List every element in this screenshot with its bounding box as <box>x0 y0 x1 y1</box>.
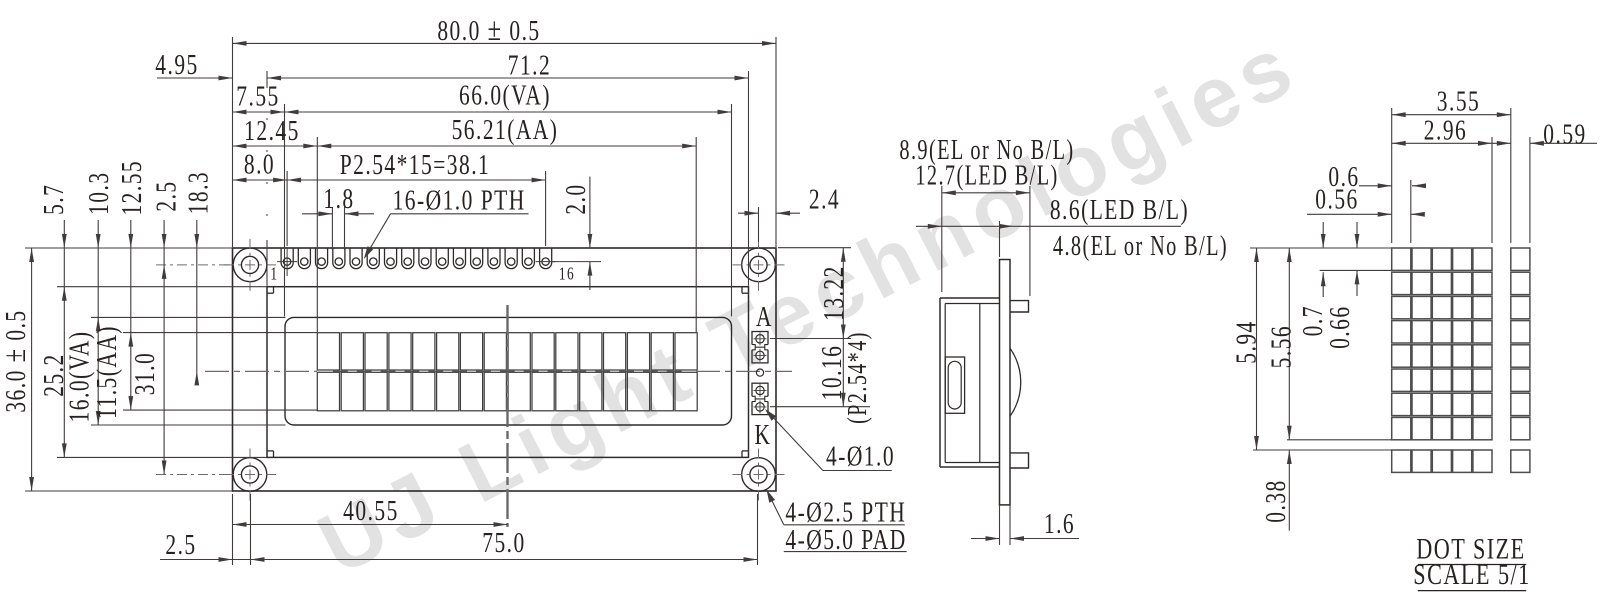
ext line bezel bottom left <box>57 456 267 458</box>
dim 56.21(AA) <box>317 145 696 147</box>
dot matrix spacing row <box>1392 450 1411 472</box>
pin16 crosshair <box>536 261 556 263</box>
pin pads 16x with holes <box>281 248 293 269</box>
mounting holes 4x <box>233 248 267 282</box>
svg-text:8.6(LED B/L): 8.6(LED B/L) <box>1050 193 1189 226</box>
dim 0.59 <box>1492 142 1511 144</box>
svg-text:A: A <box>756 300 773 333</box>
ext line hole right bottom <box>757 494 759 565</box>
svg-text:10.3: 10.3 <box>82 171 115 214</box>
dim 12.45 <box>233 145 318 147</box>
ext line pad A first <box>770 338 851 340</box>
svg-text:18.3: 18.3 <box>181 171 214 214</box>
ext line board top right <box>778 247 851 249</box>
dim 40.55 <box>233 524 508 526</box>
backlight pads A <box>752 332 768 363</box>
svg-text:75.0: 75.0 <box>482 526 525 559</box>
ext line row1 bottom left <box>1320 269 1392 271</box>
svg-text:16: 16 <box>559 265 575 284</box>
side view bezel outline <box>939 298 941 467</box>
dim 0.38 <box>1288 450 1290 531</box>
ext line pin16 <box>545 171 547 246</box>
ext line hole top centerline left <box>156 264 233 266</box>
svg-text:71.2: 71.2 <box>508 48 551 81</box>
dim 2.5 and 31.0 <box>163 220 165 475</box>
vertical centerline <box>506 305 508 527</box>
pad crosshair ticks <box>754 338 767 340</box>
svg-text:1.6: 1.6 <box>1044 507 1075 540</box>
ext line pad K last <box>770 406 870 408</box>
dim 5.94 <box>1256 248 1258 450</box>
svg-text:80.0 ± 0.5: 80.0 ± 0.5 <box>437 12 540 48</box>
svg-text:2.0: 2.0 <box>559 183 592 214</box>
dot matrix spacing column <box>1511 248 1530 270</box>
svg-text:1: 1 <box>270 265 278 284</box>
ext line col1 right <box>1410 180 1412 243</box>
svg-text:1.8: 1.8 <box>323 182 354 215</box>
dim 18.3 <box>196 220 198 385</box>
ext line hole bottom centerline left <box>156 474 233 476</box>
dim 0.56 <box>1307 213 1392 215</box>
svg-text:4.8(EL or No B/L): 4.8(EL or No B/L) <box>1053 231 1228 262</box>
dim 10.16 (P2.54*4) <box>842 339 844 407</box>
svg-text:0.66: 0.66 <box>1323 305 1356 348</box>
side ext line pin tab end <box>1029 186 1031 296</box>
ext line AA bottom left <box>123 409 317 411</box>
side view glass edge <box>979 304 981 463</box>
ext line board left bottom <box>232 494 234 565</box>
center pilot hole <box>756 369 763 376</box>
svg-text:56.21(AA): 56.21(AA) <box>452 113 559 146</box>
ext line hole left bottom <box>250 494 252 565</box>
dim 8.0 <box>233 179 288 181</box>
svg-text:12.7(LED B/L): 12.7(LED B/L) <box>915 160 1058 191</box>
svg-text:2.96: 2.96 <box>1424 113 1467 146</box>
svg-text:4-Ø5.0 PAD: 4-Ø5.0 PAD <box>785 523 906 556</box>
ext line board bottom left <box>25 490 232 492</box>
ext line grid bottom <box>1287 439 1392 441</box>
dim 0.6 <box>1359 185 1392 187</box>
display window (VA) <box>285 317 732 425</box>
svg-text:12.55: 12.55 <box>115 160 148 216</box>
svg-text:66.0(VA): 66.0(VA) <box>459 78 551 111</box>
ext line bezel right <box>748 71 750 286</box>
ext line AA top left <box>123 332 317 334</box>
svg-text:40.55: 40.55 <box>343 494 399 527</box>
svg-text:0.59: 0.59 <box>1543 117 1586 150</box>
ext line AA right <box>695 137 697 332</box>
side ext line pcb front <box>999 221 1001 257</box>
ext lines dot detail columns <box>1391 108 1393 243</box>
svg-text:4.95: 4.95 <box>155 48 198 81</box>
ext line pin1 <box>286 171 288 246</box>
svg-text:11.5(AA): 11.5(AA) <box>90 325 123 419</box>
ext line VA right <box>731 104 733 316</box>
side view top pin tab <box>1010 301 1029 312</box>
svg-text:2.5: 2.5 <box>165 528 196 561</box>
side view elastomer connector <box>945 357 964 413</box>
dot matrix spacing corner <box>1511 450 1530 472</box>
side dim 8.6/4.8 line <box>916 225 1181 227</box>
ext line grid top left <box>1250 247 1392 249</box>
dim 7.55 <box>233 111 285 113</box>
ext line board left top <box>232 37 234 247</box>
dim 10.3 and 16.0(VA) <box>97 220 99 425</box>
pcb board outline <box>233 248 777 491</box>
ext line board top left <box>25 247 232 249</box>
backlight pads K <box>752 383 768 414</box>
bezel corner tab marks <box>273 287 275 294</box>
svg-text:5.94: 5.94 <box>1229 320 1262 363</box>
dim 4.95 and 71.2 <box>157 77 233 79</box>
dim 80.0 +/- 0.5 <box>233 42 777 44</box>
horizontal centerline <box>205 370 317 372</box>
dim 12.55 and 11.5(AA) <box>130 220 132 410</box>
dot matrix 5x8 grid <box>1392 248 1411 270</box>
ext line AA left <box>316 137 318 332</box>
dim 2.5 and 75.0 <box>160 559 758 561</box>
side dim 1.6 <box>999 505 1001 545</box>
dim 2.4 hole to edge <box>758 207 760 242</box>
ext line VA left <box>284 104 286 316</box>
svg-text:8.0: 8.0 <box>244 147 275 180</box>
ext line bezel left <box>266 71 268 86</box>
ext line board right top <box>775 37 777 247</box>
pin1 crosshair <box>277 261 297 263</box>
dim 3.55 <box>1392 114 1511 116</box>
svg-text:K: K <box>755 418 772 451</box>
dim 2.0 pin offset <box>589 177 591 248</box>
svg-text:(P2.54*4): (P2.54*4) <box>843 331 873 424</box>
svg-text:36.0 ± 0.5: 36.0 ± 0.5 <box>0 309 33 412</box>
svg-text:16-Ø1.0 PTH: 16-Ø1.0 PTH <box>393 183 526 216</box>
dim 13.22 <box>842 248 844 339</box>
ext line VA top left <box>91 316 286 318</box>
svg-text:13.22: 13.22 <box>817 265 850 321</box>
dim 1.8 <box>302 213 332 215</box>
dim 0.66 dot height <box>1356 222 1358 248</box>
side dim 12.7 line <box>942 192 1030 194</box>
dim P2.54*15=38.1 <box>287 179 545 181</box>
svg-text:4-Ø1.0: 4-Ø1.0 <box>826 439 895 472</box>
dim 66.0(VA) <box>285 111 732 113</box>
dim 36.0 +/- 0.5 <box>31 248 33 491</box>
dim 5.56 <box>1288 248 1290 440</box>
side view backlight bulge <box>1010 348 1021 416</box>
svg-text:31.0: 31.0 <box>128 352 161 395</box>
svg-text:2.4: 2.4 <box>809 182 840 215</box>
ext line spacing row top <box>1253 449 1392 451</box>
svg-text:7.55: 7.55 <box>236 79 279 112</box>
ext line VA bottom left <box>91 424 286 426</box>
svg-text:2.5: 2.5 <box>149 180 182 211</box>
dim 5.7 and 25.2 <box>63 220 65 457</box>
bezel outline <box>267 287 749 458</box>
svg-text:P2.54*15=38.1: P2.54*15=38.1 <box>340 148 491 181</box>
svg-text:5.7: 5.7 <box>37 184 70 215</box>
character cells 16x2 <box>317 333 339 370</box>
svg-text:0.56: 0.56 <box>1315 182 1358 215</box>
side view bottom pin tab <box>1010 453 1029 468</box>
ext line bezel top left <box>57 286 267 288</box>
side ext line bezel front <box>941 186 943 292</box>
svg-text:12.45: 12.45 <box>244 114 300 147</box>
ext lines pad width 1.8 <box>331 207 333 250</box>
svg-text:5.56: 5.56 <box>1264 325 1297 368</box>
svg-text:0.38: 0.38 <box>1259 479 1292 522</box>
dim 0.7 row pitch <box>1322 222 1324 248</box>
svg-text:SCALE 5/1: SCALE 5/1 <box>1413 557 1530 591</box>
dim 2.96 <box>1392 142 1492 144</box>
side view pcb <box>1000 260 1011 505</box>
